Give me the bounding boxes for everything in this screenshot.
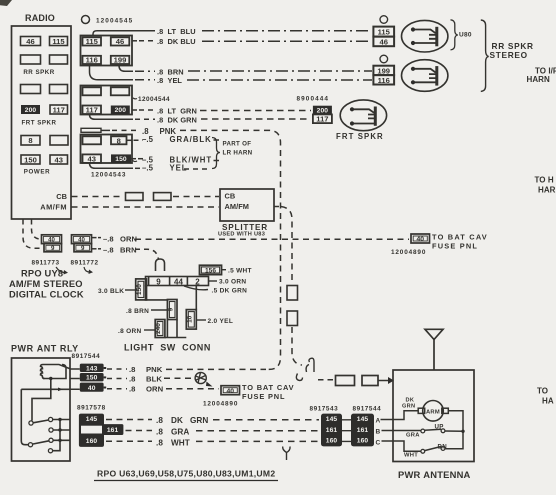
wire .8 WHT antenna: [106, 440, 152, 442]
svg-text:117: 117: [316, 115, 328, 124]
svg-text:.8 ORN: .8 ORN: [118, 328, 141, 335]
svg-text:161: 161: [357, 427, 369, 434]
svg-text:.8 LT GRN: .8 LT GRN: [157, 107, 197, 116]
svg-text:8911773: 8911773: [32, 260, 60, 267]
RR speaker 1: [402, 20, 448, 52]
FRT speaker: [340, 100, 386, 131]
svg-text:POWER: POWER: [24, 168, 50, 175]
svg-text:156: 156: [205, 268, 216, 275]
relay internal wiring: [21, 379, 70, 451]
wire .8 BRN: [119, 66, 372, 72]
svg-text:160: 160: [357, 438, 369, 445]
svg-text:43: 43: [54, 155, 62, 164]
svg-text:2: 2: [195, 277, 200, 286]
svg-text:STEREO: STEREO: [490, 50, 528, 60]
FRT speaker cells 200/117: [313, 106, 332, 115]
svg-text:116: 116: [86, 56, 98, 65]
svg-text:150: 150: [24, 155, 37, 164]
svg-text:44: 44: [174, 277, 183, 286]
svg-text:.8BLK: .8BLK: [129, 375, 162, 384]
relay coil: [41, 365, 71, 379]
scan corner mark: [0, 0, 12, 6]
svg-text:46: 46: [379, 37, 387, 46]
svg-text:.8 BRN: .8 BRN: [126, 308, 149, 315]
svg-text:8900444: 8900444: [297, 96, 330, 103]
radio pin 46: [21, 37, 69, 165]
wire .8 ORN to fuse: [107, 388, 127, 390]
RR speaker circle 1: [380, 16, 388, 24]
bracket RR SPKR STEREO: [481, 20, 489, 91]
svg-text:HA: HA: [542, 397, 554, 406]
svg-text:DN: DN: [438, 443, 448, 450]
svg-text:A: A: [376, 418, 381, 425]
svg-text:LR HARN: LR HARN: [223, 150, 253, 157]
wire .8 PNK relay: [107, 368, 127, 370]
svg-text:AM/FM: AM/FM: [225, 202, 249, 211]
svg-text:161: 161: [107, 427, 119, 434]
wire .8 YEL: [90, 66, 373, 81]
svg-text:161: 161: [326, 427, 338, 434]
RR speaker cells 199/116: [373, 66, 394, 85]
harness hook bottom: [283, 447, 290, 461]
svg-text:116: 116: [378, 76, 390, 85]
svg-text:WHT: WHT: [404, 453, 418, 459]
wire .8 BRN to light switch: [92, 249, 159, 259]
svg-text:GRN: GRN: [402, 404, 415, 410]
svg-text:C: C: [376, 440, 381, 447]
svg-text:DIGITAL CLOCK: DIGITAL CLOCK: [9, 290, 84, 300]
RR speaker 2: [402, 60, 448, 92]
svg-text:.8 DK BLU: .8 DK BLU: [157, 37, 196, 46]
svg-text:.8GRA: .8GRA: [156, 428, 189, 437]
connector 40 bottom: [221, 386, 240, 395]
svg-text:PART OF: PART OF: [223, 141, 252, 148]
svg-text:12004890: 12004890: [203, 401, 238, 408]
svg-text:8: 8: [28, 136, 32, 145]
svg-text:ARM: ARM: [426, 409, 440, 415]
svg-text:9: 9: [51, 245, 55, 252]
connector block 12004544: [81, 86, 133, 115]
svg-text:RADIO: RADIO: [25, 13, 55, 23]
svg-text:12004543: 12004543: [91, 172, 126, 179]
svg-text:8911772: 8911772: [71, 260, 99, 267]
svg-text:8917544: 8917544: [353, 406, 382, 413]
svg-text:FUSE PNL: FUSE PNL: [242, 392, 285, 401]
svg-text:UP: UP: [435, 423, 444, 430]
svg-text:240: 240: [155, 323, 162, 334]
svg-text:LIGHT SW CONN: LIGHT SW CONN: [124, 343, 211, 353]
svg-text:200: 200: [25, 107, 37, 114]
svg-text:150: 150: [86, 375, 98, 382]
svg-text:GRA: GRA: [406, 432, 420, 438]
svg-text:2.0 YEL: 2.0 YEL: [208, 318, 234, 325]
svg-text:.8 DK GRN: .8 DK GRN: [157, 115, 197, 124]
svg-text:3.0 BLK: 3.0 BLK: [98, 288, 124, 295]
RR speaker circle 2: [380, 55, 388, 63]
wire .5 BLK/WHT: [131, 158, 143, 160]
svg-text:117: 117: [86, 106, 98, 115]
antenna wiring A: [393, 411, 463, 452]
svg-text:CB: CB: [56, 192, 67, 201]
svg-text:40: 40: [78, 236, 85, 243]
svg-text:143: 143: [86, 365, 98, 372]
svg-text:B: B: [376, 429, 381, 436]
bracket U80: [451, 20, 458, 50]
wire .8 DK GRN: [90, 115, 312, 120]
svg-text:8917543: 8917543: [310, 406, 339, 413]
svg-text:–.8BRN: –.8BRN: [103, 245, 137, 254]
svg-text:.8 YEL: .8 YEL: [157, 76, 182, 85]
wire .8 ORN to fuse panel: [92, 238, 410, 240]
svg-text:160: 160: [326, 438, 338, 445]
connector 8911772: [72, 235, 92, 252]
svg-text:145: 145: [357, 416, 369, 423]
svg-text:10: 10: [186, 315, 193, 323]
dashed drops from radio: [23, 220, 41, 249]
svg-text:40: 40: [227, 388, 235, 395]
svg-text:43: 43: [87, 155, 95, 164]
svg-text:TO BAT CAV: TO BAT CAV: [242, 383, 294, 392]
svg-text:8917544: 8917544: [72, 353, 101, 360]
connector 12004545 circle: [82, 16, 90, 24]
svg-text:9: 9: [156, 277, 161, 286]
svg-text:200: 200: [317, 108, 329, 115]
svg-text:8: 8: [117, 137, 121, 146]
svg-text:CB: CB: [225, 192, 236, 201]
svg-text:145: 145: [326, 416, 338, 423]
RR speaker cells 115/46: [373, 27, 394, 47]
connector 8911773: [42, 235, 62, 252]
svg-text:PWR ANTENNA: PWR ANTENNA: [398, 469, 471, 480]
wire .8 LT GRN: [132, 109, 311, 112]
svg-text:3.0 ORN: 3.0 ORN: [219, 279, 246, 286]
svg-text:117: 117: [53, 105, 65, 114]
svg-text:AM/FM STEREO: AM/FM STEREO: [9, 279, 83, 289]
svg-text:FUSE PNL: FUSE PNL: [432, 242, 478, 251]
power antenna box: [393, 370, 474, 462]
svg-text:8917578: 8917578: [77, 404, 106, 411]
brace part of LR harn: [212, 138, 220, 169]
wire .8 DK GRN antenna: [106, 419, 152, 421]
svg-text:RPO U63,U69,U58,U75,U80,U83,UM: RPO U63,U69,U58,U75,U80,U83,UM1,UM2: [97, 469, 275, 479]
svg-text:115: 115: [86, 37, 99, 46]
svg-text:–.5GRA/BLK: –.5GRA/BLK: [142, 135, 212, 144]
relay box: [12, 358, 71, 461]
antenna motor: [423, 401, 444, 422]
svg-text:FRT SPKR: FRT SPKR: [336, 132, 384, 141]
svg-text:9: 9: [167, 307, 174, 311]
antenna mast: [425, 329, 443, 370]
svg-text:TO: TO: [537, 387, 548, 396]
svg-text:–.8ORN: –.8ORN: [103, 234, 137, 243]
light sw wires: [125, 270, 226, 330]
svg-text:46: 46: [116, 37, 124, 46]
svg-text:46: 46: [26, 37, 34, 46]
coax splitter to antenna: [274, 207, 302, 366]
svg-text:.8 LT BLU: .8 LT BLU: [157, 27, 196, 36]
wire .8 DK BLU: [132, 40, 372, 43]
svg-text:TO BAT CAV: TO BAT CAV: [432, 233, 488, 242]
connector block 12004545: [81, 36, 133, 66]
svg-text:199: 199: [114, 56, 127, 65]
svg-text:.8PNK: .8PNK: [129, 365, 163, 374]
svg-text:.8WHT: .8WHT: [156, 438, 190, 447]
coax inline hook connector: [296, 358, 314, 380]
pink lead bar: [81, 128, 101, 132]
wire radio AM/FM to splitter: [72, 206, 220, 208]
arrows to connectors: [56, 267, 91, 273]
svg-text:40: 40: [88, 385, 96, 392]
svg-text:RPO UY8: RPO UY8: [21, 269, 63, 279]
connector block 12004543: [81, 135, 133, 164]
svg-text:USED WITH U83: USED WITH U83: [218, 232, 265, 238]
svg-text:.8ORN: .8ORN: [129, 385, 164, 394]
svg-text:HAR: HAR: [538, 186, 556, 195]
connector 40 to bat cav fuse pnl (right): [411, 234, 430, 243]
svg-text:.5 WHT: .5 WHT: [228, 267, 252, 274]
svg-text:12004890: 12004890: [391, 249, 426, 256]
svg-text:115: 115: [378, 28, 391, 37]
svg-text:12004545: 12004545: [96, 18, 133, 25]
svg-text:199: 199: [377, 66, 390, 75]
wire .8 LT BLU: [93, 31, 372, 36]
svg-text:115: 115: [52, 37, 65, 46]
wire .5 GRA/BLK: [127, 139, 144, 141]
ground symbol: [195, 372, 206, 383]
svg-text:40: 40: [417, 236, 425, 243]
light switch connector body: [136, 259, 222, 338]
svg-text:150: 150: [115, 156, 127, 163]
svg-text:AM/FM: AM/FM: [40, 203, 67, 212]
svg-text:TO H: TO H: [535, 176, 554, 185]
svg-text:RR SPKR: RR SPKR: [23, 69, 54, 76]
svg-text:150: 150: [136, 284, 143, 295]
wire .8 BLK to ground: [107, 378, 127, 380]
svg-text:200: 200: [115, 107, 127, 114]
svg-text:FRT SPKR: FRT SPKR: [22, 120, 57, 127]
svg-text:U80: U80: [459, 32, 472, 39]
radio box: [12, 26, 72, 219]
svg-text:160: 160: [86, 438, 98, 445]
wire radio CB to splitter: [72, 193, 220, 201]
svg-text:145: 145: [86, 416, 98, 423]
svg-text:PWR ANT RLY: PWR ANT RLY: [11, 344, 79, 354]
svg-text:12004544: 12004544: [138, 96, 170, 103]
svg-text:.8 BRN: .8 BRN: [157, 67, 184, 76]
svg-text:9: 9: [81, 245, 85, 252]
wire .8 GRA antenna: [126, 430, 153, 432]
wire .5 YEL: [90, 163, 209, 169]
svg-text:.5 DK GRN: .5 DK GRN: [212, 288, 248, 295]
svg-text:40: 40: [48, 236, 55, 243]
svg-text:HARN: HARN: [527, 75, 550, 84]
wire .8 PNK vertical run: [180, 130, 281, 369]
splitter box U1: [220, 189, 274, 221]
